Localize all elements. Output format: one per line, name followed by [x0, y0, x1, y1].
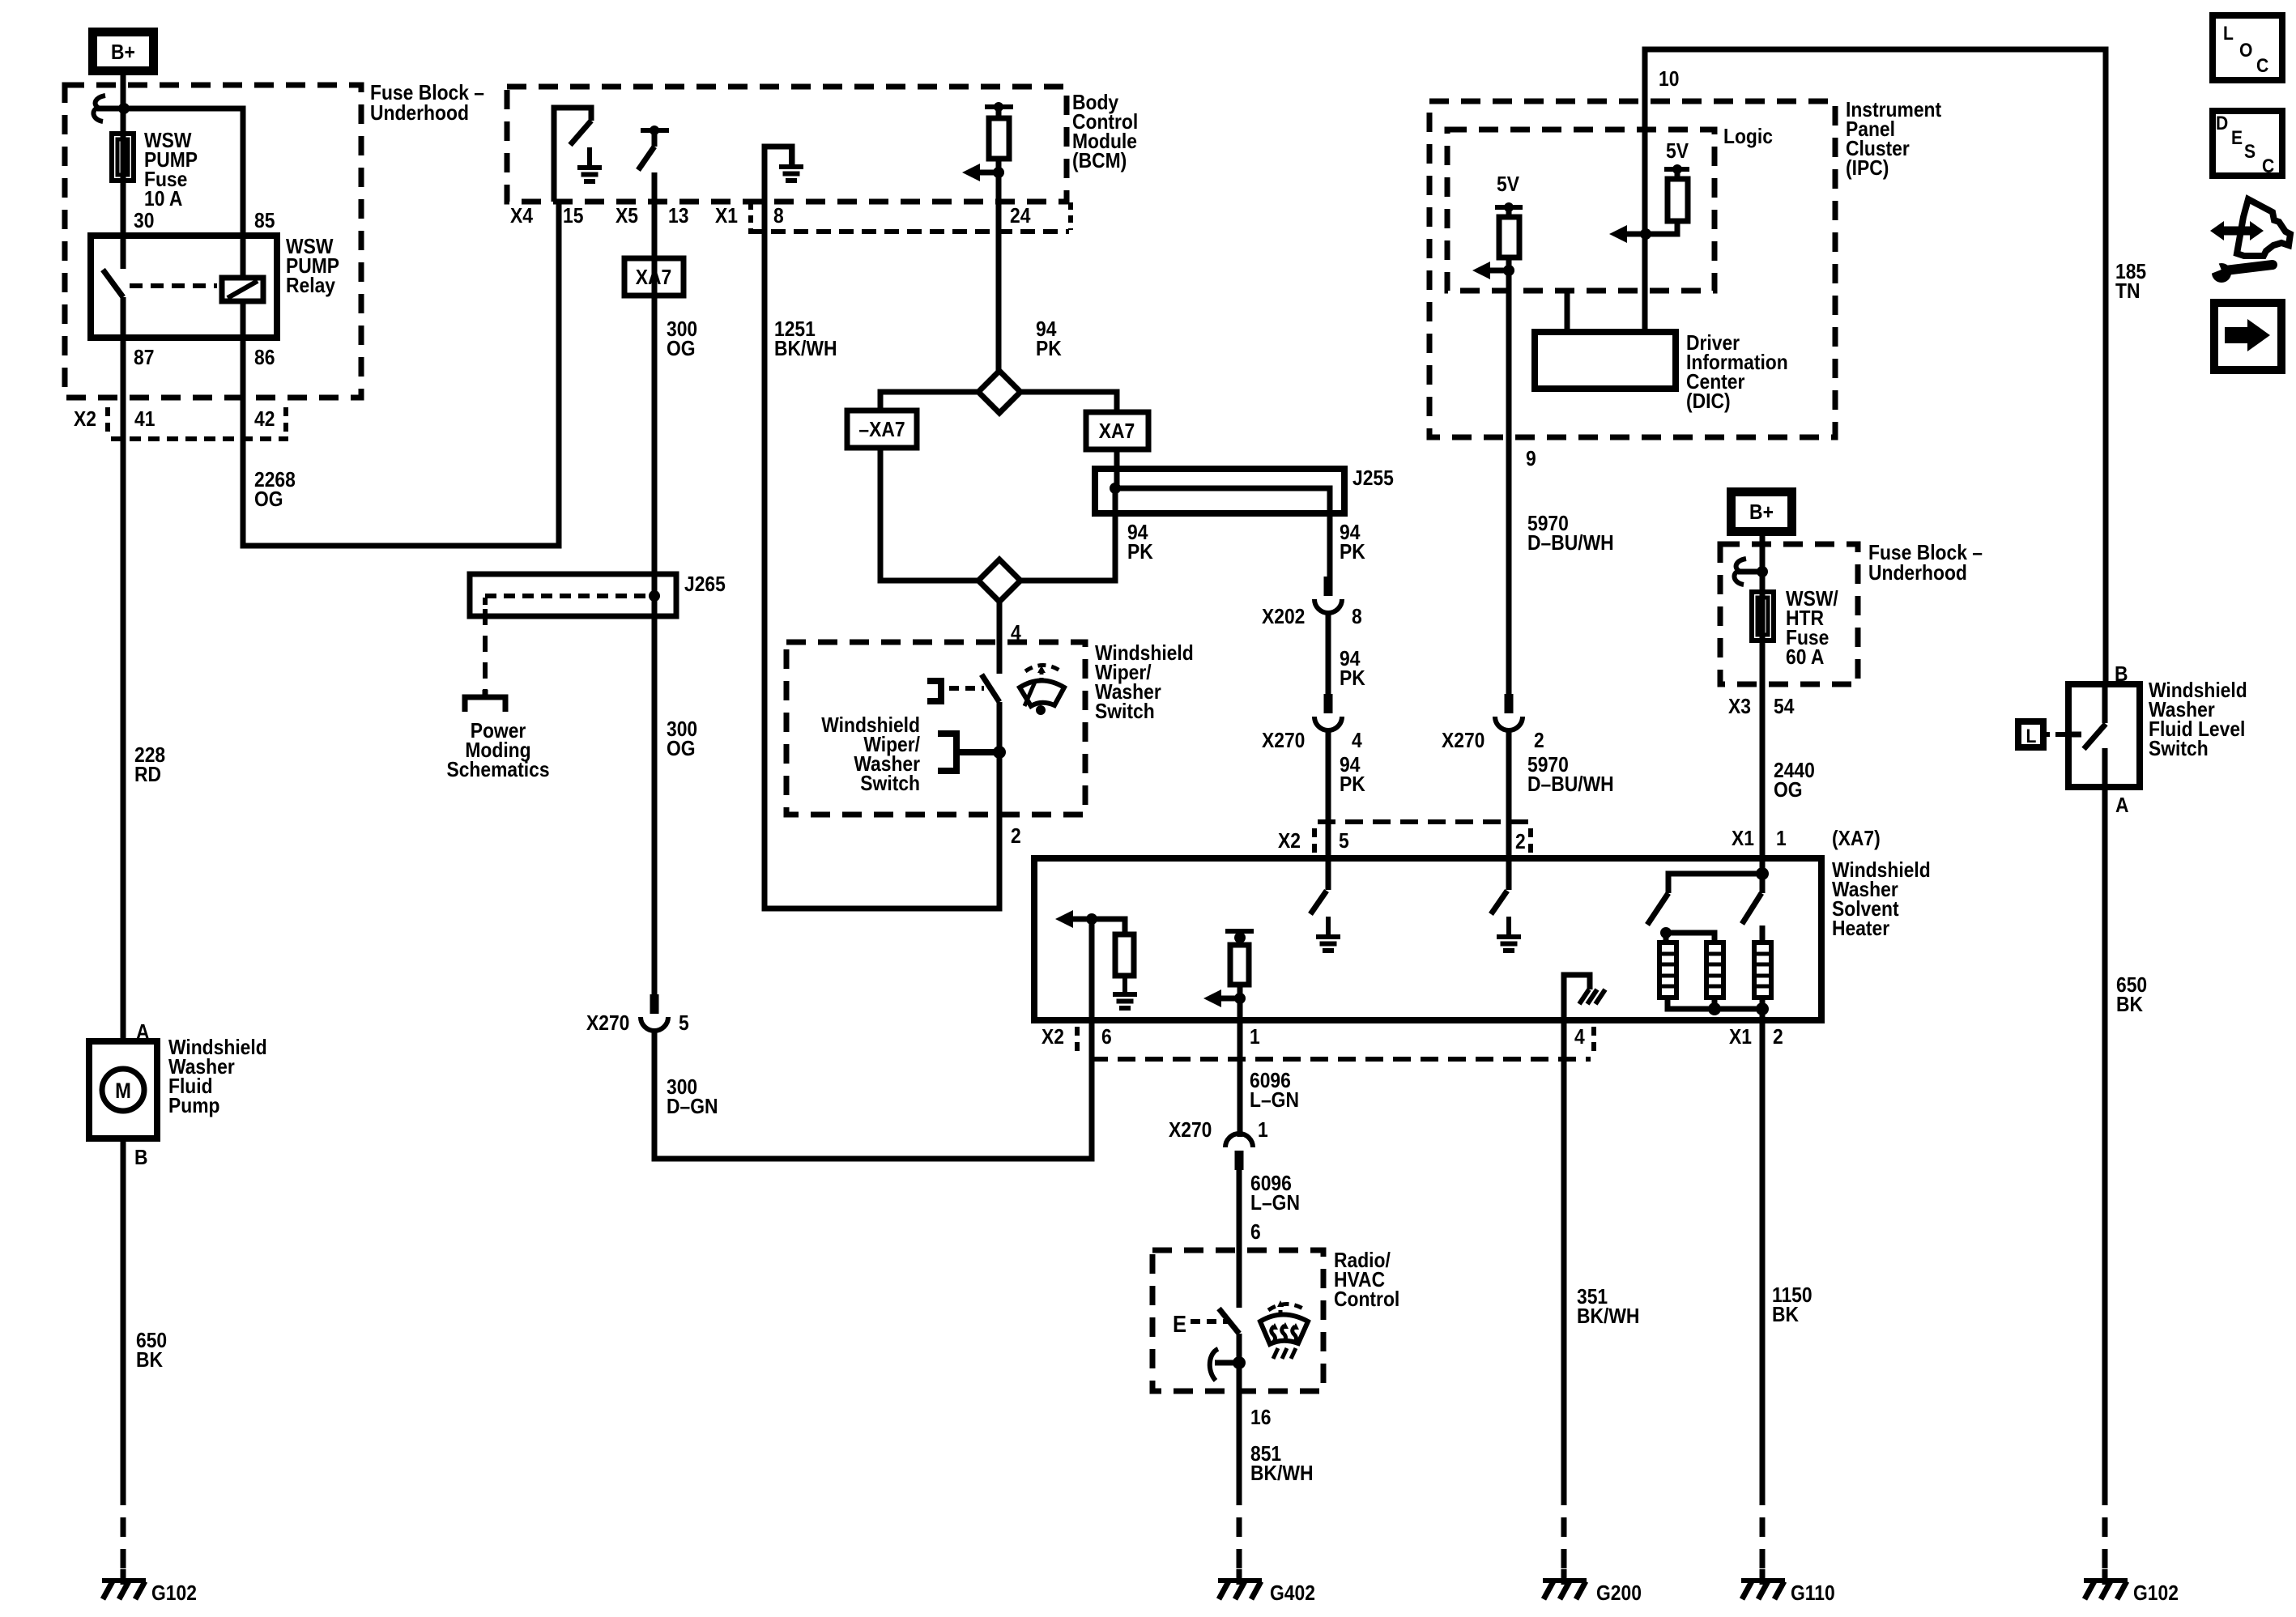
svg-text:A: A [2115, 794, 2129, 818]
fuse WSW PUMP 10A [112, 134, 134, 181]
svg-text:D–BU/WH: D–BU/WH [1527, 532, 1614, 555]
washer icon [1020, 666, 1064, 716]
heater switch blade (right) [1742, 893, 1761, 924]
svg-text:B+: B+ [111, 41, 135, 65]
relay WSW PUMP Relay box [91, 236, 277, 338]
svg-text:Underhood: Underhood [1868, 562, 1967, 585]
svg-text:X3: X3 [1728, 696, 1751, 719]
label Windshield Wiper/ Washer Switch (outside right) [1095, 642, 1194, 724]
svg-text:BK: BK [1772, 1304, 1799, 1327]
svg-text:X1: X1 [1732, 828, 1754, 851]
svg-text:RD: RD [134, 764, 161, 787]
svg-text:X2: X2 [1042, 1026, 1064, 1049]
svg-text:Underhood: Underhood [370, 102, 469, 126]
svg-text:5V: 5V [1666, 140, 1689, 164]
svg-text:X2: X2 [74, 408, 96, 432]
dashed reference drop to power moding [483, 609, 488, 690]
wire relay 87 down through X2-41 [121, 297, 126, 1041]
bus clip (left fuse block) [93, 96, 123, 121]
wire 5970 to heater X2-2 [1506, 728, 1512, 858]
wire label 228 RD [134, 744, 165, 787]
svg-text:1: 1 [1258, 1119, 1268, 1143]
heater element bus (bottom) to X1-2 [1668, 998, 1769, 1020]
node: junction + arrow (left) [1472, 262, 1514, 279]
wire J255 left leg to lower diamond [1020, 488, 1115, 581]
dashed ground lead [1561, 1486, 1567, 1577]
wire junction down to DIC [1642, 234, 1648, 332]
wire DIC left leg [1565, 293, 1570, 332]
svg-text:E: E [2231, 127, 2243, 149]
svg-text:4: 4 [1574, 1026, 1585, 1049]
wire diamond to -XA7 [880, 392, 978, 412]
svg-text:15: 15 [563, 205, 583, 228]
connector X2 dashed line (heater top) [1314, 822, 1535, 853]
wire 300 OG from BCM X5-13 down [652, 202, 658, 995]
svg-text:D–BU/WH: D–BU/WH [1527, 773, 1614, 797]
heater element 3 [1754, 943, 1771, 998]
wire 1251 BK/WH from BCM X1-8 to wiper switch pin 2 [765, 202, 999, 908]
wire IPC pin 10 up and across to level switch [1645, 49, 2106, 684]
battery B+ symbol (right) [1732, 492, 1792, 532]
fuse WSW/HTR 60A [1752, 592, 1774, 640]
svg-text:(DIC): (DIC) [1686, 390, 1731, 414]
svg-text:85: 85 [254, 210, 275, 233]
wire radio pin 16 down (851 BK/WH) [1237, 1391, 1242, 1486]
relay switch blade [103, 270, 123, 297]
heater switch to ground (pin 5) [1310, 858, 1340, 951]
heater element bus (top) [1660, 926, 1762, 943]
power moding bracket [465, 690, 505, 712]
label 300 OG (lower) [667, 718, 697, 761]
node: radio switch junction [1233, 1334, 1246, 1391]
forward arrow icon box [2214, 303, 2281, 370]
labels X2 41 42 [74, 408, 275, 432]
svg-text:Switch: Switch [2149, 738, 2209, 761]
svg-text:OG: OG [667, 338, 696, 361]
svg-text:BK/WH: BK/WH [1577, 1305, 1639, 1329]
svg-text:X270: X270 [1169, 1119, 1212, 1143]
svg-text:L–GN: L–GN [1250, 1192, 1300, 1215]
svg-text:X4: X4 [510, 205, 533, 228]
label Instrument Panel Cluster (IPC) [1846, 99, 1941, 181]
svg-text:Pump: Pump [168, 1095, 220, 1118]
radio switch blade [1219, 1308, 1239, 1334]
ground G402 [1218, 1569, 1262, 1599]
label 5970 D-BU/WH [1527, 513, 1614, 555]
radio switch detent contact E [1173, 1310, 1228, 1337]
ground G102 (right) [2084, 1569, 2128, 1599]
splice pack J255 [1095, 449, 1344, 513]
svg-text:BK: BK [136, 1349, 163, 1372]
svg-text:5: 5 [679, 1012, 689, 1036]
svg-text:X2: X2 [1278, 830, 1301, 853]
svg-text:J255: J255 [1352, 467, 1394, 491]
svg-text:X1: X1 [1729, 1026, 1752, 1049]
body control module dashed box [507, 87, 1067, 202]
L flow box [2018, 721, 2066, 747]
ground G110 [1741, 1569, 1785, 1599]
connector X270-5 [641, 994, 668, 1031]
svg-text:–XA7: –XA7 [858, 419, 905, 442]
label 351 BK/WH [1577, 1286, 1639, 1329]
svg-text:24: 24 [1010, 205, 1031, 228]
svg-text:B: B [2115, 663, 2128, 687]
connector X270-2 [1495, 694, 1523, 730]
svg-text:X270: X270 [586, 1012, 629, 1036]
svg-text:Relay: Relay [286, 274, 335, 298]
label Windshield Washer Solvent Heater [1832, 859, 1931, 941]
dashed ground lead [1237, 1486, 1242, 1577]
svg-text:2: 2 [1515, 831, 1526, 854]
svg-text:8: 8 [1352, 606, 1362, 629]
wire IPC pin 9 down [1506, 270, 1512, 694]
svg-text:D–GN: D–GN [667, 1096, 718, 1119]
dashed ground lead [2102, 1486, 2108, 1577]
svg-text:2: 2 [1011, 825, 1021, 849]
heater element 1 [1659, 943, 1676, 998]
wire lower diamond to wiper switch pin 4 [997, 602, 1003, 674]
svg-text:5V: 5V [1497, 173, 1520, 197]
svg-text:X202: X202 [1262, 606, 1305, 629]
node: junction dot [1757, 566, 1768, 577]
svg-text:C: C [2256, 55, 2268, 77]
svg-text:4: 4 [1352, 730, 1362, 753]
heater switch to ground (pin 2) [1491, 858, 1521, 951]
wire label 1251 BK/WH [774, 318, 837, 361]
svg-text:Logic: Logic [1723, 126, 1773, 149]
svg-text:8: 8 [773, 205, 784, 228]
svg-text:J265: J265 [684, 573, 726, 597]
svg-text:87: 87 [134, 347, 154, 370]
svg-text:42: 42 [254, 408, 275, 432]
svg-text:G402: G402 [1270, 1582, 1315, 1606]
svg-text:X1: X1 [715, 205, 738, 228]
wire heater pin 4 down (351 BK/WH) [1561, 1020, 1567, 1486]
label Fuse Block - Underhood (left) [370, 82, 484, 126]
svg-text:B+: B+ [1749, 501, 1774, 525]
wire 94 PK from BCM 24 to splice diamond [996, 172, 1002, 371]
ground G102 (left) [102, 1569, 146, 1599]
label 94 PK (right J255 leg) [1340, 521, 1365, 564]
wire 94 PK right leg down [1327, 513, 1333, 577]
svg-text:4: 4 [1011, 622, 1021, 645]
wire diamond to XA7 [1020, 392, 1117, 412]
wire junction to relay coil pin 85 [124, 109, 243, 278]
label Windshield Wiper/ Washer Switch (inside) [821, 714, 920, 796]
svg-text:(IPC): (IPC) [1846, 157, 1889, 181]
splice J265 box [470, 574, 676, 616]
svg-text:S: S [2244, 141, 2256, 163]
label WSW PUMP Fuse 10 A [144, 130, 198, 211]
ground G200 [1543, 1569, 1587, 1599]
svg-text:BK/WH: BK/WH [774, 338, 837, 361]
connector X270-1 [1225, 1134, 1253, 1170]
windshield washer fluid pump [89, 1041, 157, 1138]
defrost icon [1260, 1300, 1308, 1359]
node: BCM 24 junction + arrow [962, 164, 1004, 181]
multi-throw contact bracket [938, 734, 999, 771]
svg-text:10 A: 10 A [144, 188, 183, 211]
svg-text:O: O [2239, 40, 2252, 62]
heater element 2 [1706, 943, 1723, 998]
label 650 BK (right) [2116, 974, 2147, 1017]
svg-text:L–GN: L–GN [1250, 1089, 1299, 1113]
label Body Control Module (BCM) [1072, 91, 1138, 173]
5V source (left, pin 9 circuit) [1495, 173, 1523, 270]
svg-text:OG: OG [667, 738, 696, 761]
svg-text:Switch: Switch [860, 772, 920, 796]
svg-text:41: 41 [134, 408, 155, 432]
radio/HVAC control dashed box [1152, 1250, 1323, 1391]
label 5970 D-BU/WH (lower) [1527, 754, 1614, 797]
svg-text:10: 10 [1659, 68, 1679, 91]
svg-text:OG: OG [1774, 779, 1803, 802]
relay actuation dashed link [130, 283, 217, 288]
dashed ground lead [1760, 1486, 1766, 1577]
windshield washer solvent heater box [1034, 858, 1821, 1020]
label 851 BK/WH [1250, 1443, 1313, 1486]
BCM pin labels [510, 205, 1031, 228]
svg-text:PK: PK [1340, 773, 1365, 797]
svg-text:30: 30 [134, 210, 154, 233]
svg-text:G102: G102 [2133, 1582, 2179, 1606]
pins X1 1 [1732, 828, 1787, 851]
svg-text:C: C [2262, 155, 2274, 177]
wire heater pin 1 down (6096 L-GN) [1237, 1020, 1243, 1137]
svg-text:54: 54 [1774, 696, 1795, 719]
wire level switch pin A down [2102, 748, 2108, 1486]
label Radio/ HVAC Control [1334, 1249, 1399, 1312]
windshield washer fluid level switch box [2068, 684, 2140, 787]
level switch blade [2072, 684, 2106, 749]
driver information center box [1535, 332, 1676, 389]
heater top pin labels X2 5 2 [1278, 830, 1526, 854]
svg-text:(XA7): (XA7) [1832, 828, 1881, 851]
connector X1 (BCM) dashed line [748, 202, 1071, 232]
svg-text:1: 1 [1776, 828, 1787, 851]
svg-text:D: D [2216, 113, 2228, 134]
svg-text:2: 2 [1773, 1026, 1783, 1049]
heater switch blade (left) [1647, 893, 1668, 925]
svg-text:6: 6 [1250, 1221, 1261, 1245]
battery B+ symbol (left) [93, 32, 154, 71]
BCM momentary switch (pin X5-13) [638, 126, 669, 202]
svg-text:13: 13 [668, 205, 688, 228]
wire 300 D-GN to heater X2-6 [654, 1020, 1092, 1159]
label WSW/ HTR Fuse 60 A [1786, 588, 1838, 670]
wire label 94 PK [1036, 318, 1062, 361]
svg-text:Switch: Switch [1095, 700, 1155, 724]
node: junction dot B+ feed [118, 103, 130, 114]
splice diamond (lower) [978, 560, 1020, 602]
connector XA7 box on 300 OG [624, 258, 684, 296]
label Power Moding Schematics [446, 720, 549, 782]
windshield wiper/washer switch dashed box [786, 642, 1085, 815]
svg-text:PK: PK [1036, 338, 1062, 361]
wire B+ to relay pin 30 [121, 75, 126, 269]
fuse block underhood dashed box (left) [65, 85, 361, 398]
label 6096 L-GN [1250, 1070, 1299, 1113]
wire B+ down to heater X1-1 [1760, 536, 1766, 858]
heater control resistor (pin 1) [1225, 931, 1254, 1020]
heater feed node X1-1 [1668, 858, 1769, 893]
svg-text:OG: OG [254, 488, 283, 512]
BCM internal ground (pin X1-8) [765, 147, 803, 202]
instrument panel cluster dashed box [1429, 101, 1835, 437]
svg-text:E: E [1173, 1310, 1186, 1337]
connector X2 (fuse block) stubs and line [108, 407, 288, 439]
svg-text:5: 5 [1339, 830, 1349, 853]
node: junction + arrow (right) [1609, 225, 1651, 243]
wire -XA7 to lower diamond [880, 448, 978, 581]
bus clip (right fuse block) [1734, 559, 1762, 585]
BCM switch to ground (pin X4-15) [554, 108, 602, 202]
wire heater X1-2 down (1150 BK) [1760, 1020, 1766, 1486]
svg-text:6: 6 [1101, 1026, 1112, 1049]
heater pin 6 node with arrow [1055, 910, 1097, 1020]
DESC icon box [2213, 111, 2282, 177]
heater sense resistor to ground [1092, 919, 1137, 1008]
connector X2 dashed line (heater bottom) [1077, 1027, 1594, 1059]
svg-text:BK/WH: BK/WH [1250, 1462, 1313, 1486]
connector X270-4 [1314, 694, 1342, 730]
wire label 300 OG [667, 318, 697, 361]
svg-text:2: 2 [1534, 730, 1544, 753]
label WSW PUMP Relay [286, 236, 339, 298]
svg-text:BK: BK [2116, 994, 2143, 1017]
wire pump B down [121, 1138, 126, 1486]
svg-text:G110: G110 [1791, 1582, 1835, 1606]
dashed ground lead [121, 1486, 126, 1577]
logic dashed box [1447, 130, 1715, 291]
wire label 2268 OG [254, 469, 296, 512]
label 6096 L-GN (lower) [1250, 1172, 1300, 1215]
svg-text:G102: G102 [151, 1582, 197, 1606]
label Driver Information Center (DIC) [1686, 332, 1788, 414]
relay coil [222, 278, 263, 301]
radio momentary hook contact [1210, 1349, 1240, 1381]
label Windshield Washer Fluid Level Switch [2149, 679, 2247, 761]
svg-text:X270: X270 [1262, 730, 1305, 753]
label 2440 OG [1774, 760, 1815, 802]
LOC icon box [2213, 15, 2282, 80]
svg-text:X270: X270 [1442, 730, 1485, 753]
pins X3 54 [1728, 696, 1795, 719]
connector XA7 box (right) [1086, 412, 1148, 449]
node: switch output junction [993, 746, 1006, 759]
connector -XA7 box [847, 411, 917, 448]
splice diamond (upper) [978, 371, 1020, 413]
wire to radio pin 6 [1237, 1169, 1242, 1308]
svg-text:L: L [2223, 23, 2234, 45]
svg-text:(BCM): (BCM) [1072, 150, 1127, 173]
node: pin1 junction + arrow [1203, 989, 1246, 1007]
connector X202-8 [1314, 577, 1342, 613]
5V source (right, pin 10 circuit) [1646, 140, 1689, 234]
svg-text:PK: PK [1340, 667, 1365, 691]
wire relay 86 down through X2-42 to BCM X4-15 loop [243, 202, 559, 546]
svg-text:60 A: 60 A [1786, 646, 1825, 670]
svg-text:B: B [134, 1147, 148, 1170]
wire label 650 BK [136, 1330, 167, 1372]
label 1150 BK [1772, 1284, 1813, 1327]
svg-text:G200: G200 [1596, 1582, 1642, 1606]
label 94 PK (left J255 leg) [1127, 521, 1153, 564]
wire 94 PK to heater X2-5 [1326, 728, 1331, 858]
heater internal chassis ground (pin 4) [1564, 975, 1605, 1020]
svg-text:Heater: Heater [1832, 917, 1890, 941]
svg-text:XA7: XA7 [1099, 420, 1135, 444]
svg-text:PK: PK [1127, 541, 1153, 564]
svg-text:PK: PK [1340, 541, 1365, 564]
svg-text:1: 1 [1250, 1026, 1260, 1049]
label Fuse Block - Underhood (right) [1868, 542, 1983, 585]
svg-text:86: 86 [254, 347, 275, 370]
fuse block underhood dashed box (right) [1720, 544, 1858, 684]
label 300 D-GN [667, 1076, 718, 1119]
svg-text:XA7: XA7 [636, 266, 671, 290]
wire 94 PK between connectors [1326, 611, 1331, 694]
diagnostic hand/wrench icon [2208, 199, 2290, 283]
detent contact [927, 681, 984, 701]
BCM pull-up 5V resistor (pin 24) [985, 102, 1013, 172]
svg-text:M: M [115, 1079, 131, 1104]
svg-text:16: 16 [1250, 1406, 1271, 1430]
svg-text:L: L [2026, 726, 2037, 747]
label Windshield Washer Fluid Pump [168, 1036, 267, 1118]
heater bottom pin labels [1042, 1026, 1783, 1049]
svg-text:Control: Control [1334, 1288, 1399, 1312]
svg-text:Schematics: Schematics [446, 759, 549, 782]
svg-text:9: 9 [1526, 448, 1536, 471]
svg-text:TN: TN [2115, 280, 2140, 304]
svg-text:X5: X5 [616, 205, 638, 228]
switch blade [982, 674, 999, 702]
label 185 TN [2115, 261, 2146, 304]
